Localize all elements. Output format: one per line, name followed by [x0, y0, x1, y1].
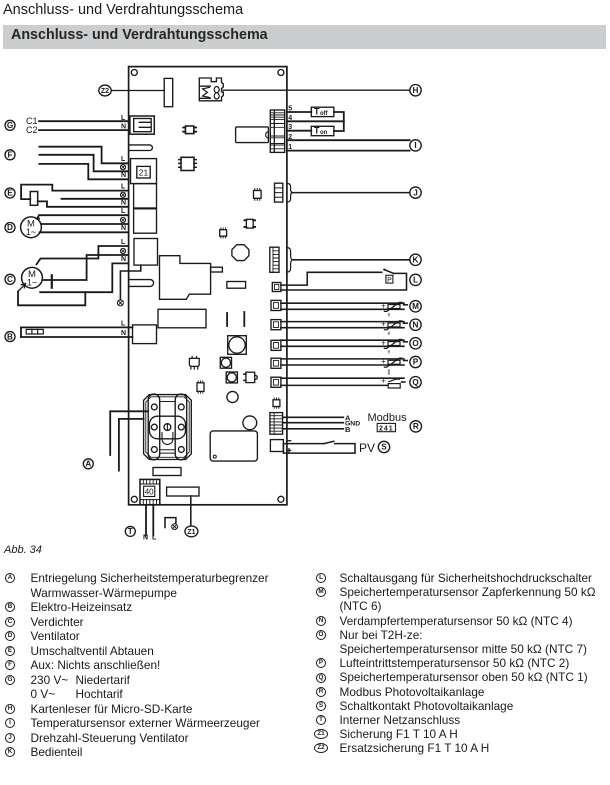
svg-text:+: +	[381, 338, 386, 347]
capacitor bar 2	[243, 312, 245, 326]
svg-text:G: G	[7, 121, 13, 130]
capacitor C	[51, 275, 53, 287]
wire Z1	[190, 496, 192, 525]
svg-text:1~: 1~	[27, 278, 37, 288]
label minus (PV)	[287, 440, 290, 442]
wire T off/on bus	[334, 112, 344, 131]
svg-text:C: C	[7, 275, 13, 284]
PV switch bar	[283, 444, 355, 454]
wire Z2 to fuse	[111, 90, 164, 92]
pin 1 wire to I	[287, 150, 410, 152]
sensor NTC M	[381, 301, 407, 317]
svg-text:+: +	[381, 357, 386, 366]
svg-text:on: on	[320, 130, 328, 136]
wire A upper	[110, 411, 148, 455]
connector M (2-pin)	[271, 300, 281, 310]
component SMD capacitor C10	[183, 126, 196, 134]
connector B outer	[133, 325, 157, 344]
octagon buzzer	[232, 245, 249, 261]
fuse (Ersatzsicherung Z2)	[164, 78, 173, 106]
label I	[410, 140, 421, 151]
wire F2	[39, 155, 128, 172]
MCU chip rounded	[210, 431, 257, 461]
chip U5	[220, 228, 227, 238]
connector P (2-pin)	[271, 358, 281, 368]
svg-text:N: N	[413, 320, 419, 329]
svg-text:Modbus: Modbus	[368, 412, 408, 424]
svg-text:N: N	[121, 330, 126, 337]
motor C (Verdichter)	[22, 267, 43, 288]
slot cutout lower left edge	[129, 280, 154, 287]
wire Modbus GND	[283, 422, 344, 424]
wires N	[281, 322, 404, 328]
svg-text:P: P	[413, 358, 419, 367]
svg-text:A: A	[85, 460, 91, 469]
brace J	[287, 184, 293, 203]
svg-text:ϑ: ϑ	[388, 371, 391, 376]
label L	[410, 274, 421, 285]
wire C box PE down	[120, 265, 140, 300]
connector N (2-pin)	[271, 320, 281, 330]
wires M	[281, 303, 404, 309]
svg-text:E: E	[7, 189, 13, 198]
label E	[5, 188, 15, 198]
label G	[5, 120, 15, 130]
arrow reset C	[18, 284, 26, 292]
svg-text:J: J	[413, 188, 418, 197]
screw bottom-right	[278, 496, 284, 502]
svg-text:Z1: Z1	[187, 529, 195, 536]
label C	[5, 274, 15, 284]
component with side pin	[244, 372, 257, 382]
connector D outer	[134, 209, 157, 233]
svg-text:PV: PV	[359, 441, 375, 455]
connector PV	[270, 440, 283, 452]
connector F (Aux) outer	[131, 159, 157, 184]
svg-text:L: L	[121, 156, 126, 163]
connector O (2-pin)	[271, 340, 281, 350]
sensor NTC Q	[381, 371, 405, 388]
heatsink tab	[211, 267, 223, 272]
svg-text:1~: 1~	[26, 227, 36, 237]
motor D (Ventilator)	[21, 217, 42, 238]
label H	[410, 85, 421, 96]
slot cutout upper left edge	[129, 145, 153, 151]
wire C PE	[42, 255, 128, 280]
pin 4 wire	[287, 120, 344, 122]
wire Modbus A	[283, 416, 344, 418]
wire E L	[21, 185, 129, 200]
fuse F1	[167, 487, 199, 496]
svg-text:I: I	[414, 141, 416, 150]
terminal screw PE (D)	[120, 217, 125, 222]
pin 5 wire	[287, 111, 311, 113]
svg-text:L: L	[121, 184, 126, 191]
wires O	[281, 340, 404, 346]
label F	[5, 150, 15, 160]
switch L (high pressure)	[383, 269, 393, 274]
svg-text:ϑ: ϑ	[388, 331, 391, 336]
svg-text:21: 21	[139, 168, 149, 178]
sensor NTC N	[381, 320, 407, 336]
svg-text:L: L	[413, 276, 418, 285]
label P	[410, 356, 421, 367]
wire Modbus B	[283, 428, 344, 430]
svg-text:C2: C2	[26, 125, 38, 135]
screw PE below C	[117, 300, 123, 306]
label N	[410, 319, 421, 330]
svg-text:N: N	[121, 225, 126, 232]
wire L lower loop	[281, 273, 407, 290]
svg-text:ϑ: ϑ	[388, 313, 391, 318]
chip near modbus	[273, 398, 280, 408]
transistor Q1	[189, 357, 199, 369]
svg-text:S: S	[381, 443, 387, 452]
PV switch blade	[324, 441, 334, 443]
svg-text:N: N	[121, 200, 126, 207]
connector J (4-pin)	[275, 183, 283, 202]
capacitor bar 1	[226, 313, 228, 326]
svg-text:N: N	[121, 124, 126, 131]
screw top-left	[131, 70, 137, 76]
connector L (2-pin)	[272, 283, 281, 292]
label plus (PV)	[287, 449, 290, 452]
svg-text:off: off	[320, 111, 329, 117]
wire T N	[145, 505, 147, 536]
square cap with circle big	[228, 336, 247, 355]
pin 3 wire	[287, 130, 311, 132]
relay K2	[158, 309, 206, 328]
svg-text:L: L	[121, 208, 126, 215]
pressure label P box	[386, 275, 393, 284]
wire D N	[40, 231, 129, 233]
circle pad big	[243, 416, 257, 430]
svg-text:241: 241	[379, 425, 394, 432]
svg-text:L: L	[121, 239, 126, 246]
svg-text:O: O	[412, 339, 419, 348]
circle pad small	[227, 391, 238, 402]
label R	[410, 421, 421, 432]
wires P	[281, 359, 404, 365]
wire C L	[37, 246, 129, 264]
svg-text:+: +	[381, 376, 386, 385]
svg-text:L: L	[152, 535, 157, 542]
label T	[125, 526, 135, 536]
power connector 40	[140, 479, 160, 504]
label 241 box	[377, 423, 395, 432]
svg-text:N: N	[121, 256, 126, 263]
screw top-right	[278, 70, 284, 76]
svg-text:K: K	[413, 256, 419, 265]
square cap with circle small 2	[226, 372, 237, 383]
svg-text:B: B	[7, 332, 13, 341]
wire C loop	[18, 292, 85, 306]
svg-text:D: D	[7, 223, 13, 232]
wire K	[293, 259, 410, 261]
thermostat contact T on	[311, 126, 334, 136]
svg-text:T: T	[128, 527, 133, 536]
svg-text:P: P	[387, 277, 392, 284]
wires Q	[281, 378, 404, 385]
terminal screw PE (E)	[120, 192, 125, 197]
wire E PE dead-end	[62, 198, 129, 200]
wire D PE	[41, 223, 128, 225]
connector F label 21	[137, 166, 150, 178]
label S	[378, 441, 389, 452]
wire C1	[39, 120, 129, 122]
card reader Micro-SD U3	[199, 78, 223, 101]
resistor block	[227, 282, 246, 289]
square cap with circle small	[220, 357, 231, 368]
heater B element	[21, 327, 133, 337]
label Z2	[99, 85, 111, 96]
connector Q (2-pin)	[271, 377, 281, 387]
label M	[410, 301, 421, 312]
board outline	[129, 67, 287, 505]
relay K1	[236, 127, 269, 143]
wire J	[293, 192, 410, 194]
pin 2 wire to I	[287, 139, 410, 141]
wire card reader to H	[223, 89, 409, 91]
terminal screw PE (F)	[120, 165, 125, 170]
wire C2	[39, 129, 129, 131]
small IC vertical	[197, 381, 204, 393]
svg-text:L: L	[121, 320, 126, 327]
svg-text:N: N	[121, 172, 126, 179]
ground bracket	[165, 518, 178, 530]
wire L upper	[281, 272, 382, 285]
svg-text:+: +	[381, 320, 386, 329]
svg-text:+: +	[381, 301, 386, 310]
chip U4	[254, 189, 262, 201]
connector G outer	[130, 116, 154, 134]
label Q	[410, 377, 421, 388]
IC U2 (8-pin)	[179, 157, 196, 170]
connector G inner	[134, 119, 152, 132]
connector G contacts	[139, 122, 150, 127]
svg-text:H: H	[413, 86, 419, 95]
svg-text:F: F	[7, 151, 12, 160]
connector Modbus (ladder)	[270, 413, 283, 435]
sensor NTC O	[381, 338, 407, 354]
label Z1	[185, 526, 198, 537]
card edge connector X1 (pins 1-5)	[270, 110, 284, 152]
svg-text:L: L	[121, 115, 126, 122]
screw bottom-left	[131, 496, 137, 502]
svg-text:Q: Q	[412, 378, 419, 387]
svg-text:ϑ: ϑ	[388, 350, 391, 355]
svg-text:40: 40	[145, 488, 154, 497]
wire F3	[39, 164, 128, 179]
wire C N	[40, 263, 128, 292]
label B	[5, 332, 15, 342]
label A	[83, 459, 93, 469]
label K	[410, 254, 421, 265]
wire E N	[38, 201, 129, 206]
STB safety limiter	[144, 394, 192, 460]
label O	[410, 338, 421, 349]
terminal screw PE (C)	[120, 248, 125, 253]
svg-text:M: M	[412, 302, 419, 311]
valve E (Umschaltventil)	[30, 192, 37, 206]
rect below STB	[153, 468, 181, 476]
sensor NTC P	[381, 357, 407, 373]
crystal Y1	[244, 219, 255, 228]
svg-text:B: B	[345, 425, 351, 434]
svg-text:Z2: Z2	[101, 88, 109, 95]
thermostat contact T off	[311, 107, 334, 117]
connector E outer	[134, 184, 157, 208]
connector C outer	[134, 239, 158, 266]
wire A lower	[119, 419, 144, 471]
wire D L	[37, 215, 129, 219]
wire T L	[152, 505, 154, 536]
connector K (7-pin)	[270, 247, 279, 272]
svg-text:N: N	[143, 535, 148, 542]
brace K	[287, 248, 293, 272]
heatsink	[160, 256, 211, 300]
label D	[5, 223, 15, 233]
svg-text:R: R	[413, 422, 419, 431]
wire F1	[39, 147, 128, 164]
label J	[410, 187, 421, 198]
